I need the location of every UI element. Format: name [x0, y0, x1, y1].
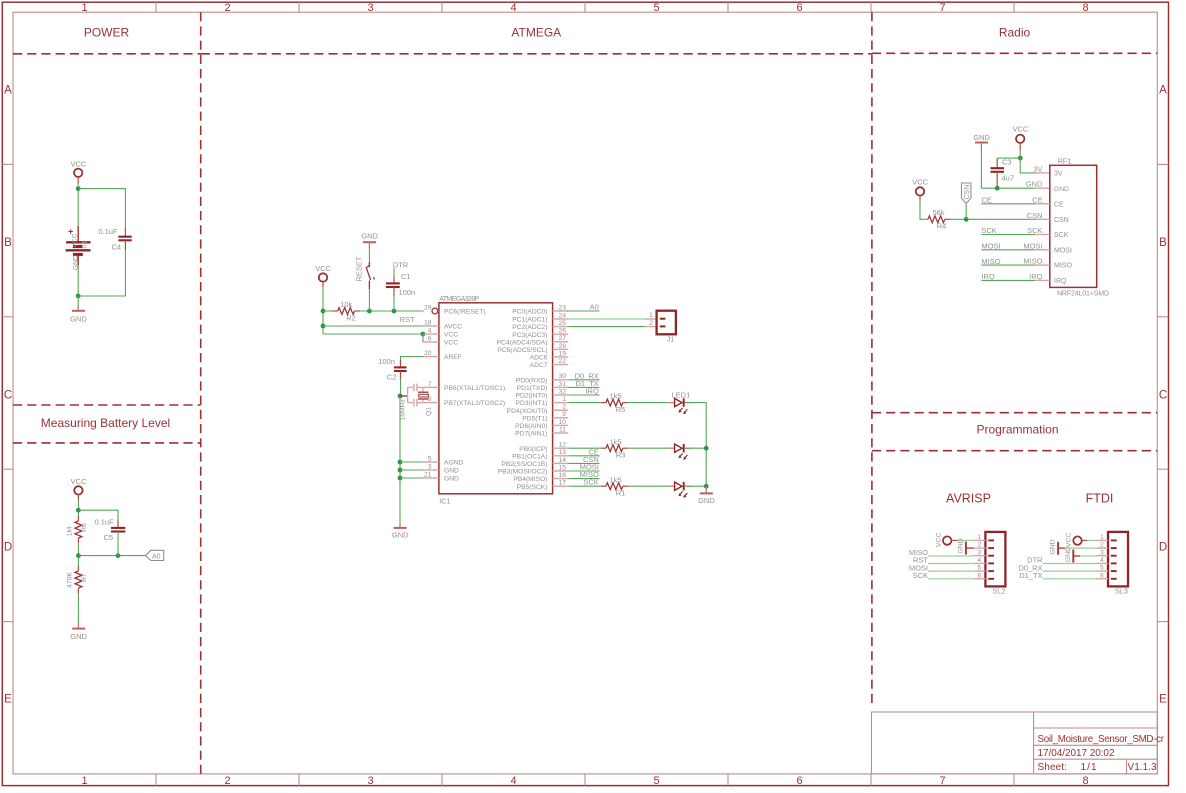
svg-text:30: 30: [558, 373, 566, 380]
IC1 pin 31 PD1(TXD): [517, 381, 569, 392]
svg-text:AVCC: AVCC: [444, 324, 462, 331]
svg-text:100n: 100n: [399, 288, 416, 297]
wire to GND: [77, 296, 79, 306]
wire VCC down: [1019, 150, 1021, 158]
wire R3 to LED: [628, 447, 675, 449]
svg-text:PC6(/RESET): PC6(/RESET): [444, 309, 486, 316]
node junction GND pin21: [398, 476, 403, 481]
IC1 pin 15 PB3(MOSI/OC2): [498, 464, 569, 475]
svg-text:B1: B1: [82, 240, 89, 248]
svg-text:PD5(T1): PD5(T1): [522, 415, 547, 422]
svg-text:D: D: [1159, 542, 1167, 554]
svg-text:SCK: SCK: [1027, 226, 1042, 235]
svg-text:R5: R5: [616, 405, 626, 414]
svg-text:19: 19: [558, 350, 566, 357]
svg-text:ATMEGA328P: ATMEGA328P: [439, 296, 479, 303]
svg-text:Soil_Moisture_Sensor_SMD-cr: Soil_Moisture_Sensor_SMD-cr: [1038, 734, 1165, 745]
svg-text:C: C: [1159, 389, 1167, 401]
node junction AVCC row: [321, 324, 326, 329]
svg-text:PB0(ICP): PB0(ICP): [519, 446, 547, 453]
SL3 pin stubs: [1097, 540, 1109, 578]
node junction LED3 rail: [704, 484, 709, 489]
svg-text:CSN: CSN: [1027, 211, 1043, 220]
wire net D1_TX: [568, 386, 599, 388]
svg-text:PC2(ADC2): PC2(ADC2): [512, 324, 547, 331]
svg-text:21: 21: [424, 471, 432, 478]
svg-text:D: D: [4, 542, 12, 554]
svg-text:MISO: MISO: [1054, 263, 1072, 270]
wire SL3 pin1: [1087, 539, 1097, 541]
svg-text:29: 29: [424, 304, 432, 311]
svg-text:NRF24L01+SMD: NRF24L01+SMD: [1057, 290, 1109, 297]
node junction VCC pin6: [421, 332, 426, 337]
svg-text:27: 27: [558, 335, 566, 342]
svg-text:CE: CE: [981, 196, 991, 205]
svg-text:0.1uF: 0.1uF: [95, 518, 115, 527]
wire R1 to LED: [628, 485, 675, 487]
net tag A0: [146, 550, 164, 560]
svg-text:8: 8: [1082, 2, 1088, 14]
ground GND (battery level): [70, 624, 87, 642]
svg-text:GND: GND: [70, 632, 87, 641]
capacitor C3 4u7: [991, 157, 1015, 188]
wire net IRQ (radio): [981, 279, 1035, 281]
wire bottom to C4: [78, 250, 125, 296]
svg-text:GND: GND: [1050, 539, 1057, 554]
svg-text:R4: R4: [937, 222, 947, 231]
svg-text:PC0(ADC0): PC0(ADC0): [512, 309, 547, 316]
svg-text:C4: C4: [112, 243, 122, 252]
IC1 pin 9 PD5(T1): [522, 411, 568, 422]
svg-text:20: 20: [424, 350, 432, 357]
svg-text:GND: GND: [1054, 186, 1069, 193]
svg-text:PB7(XTAL2/TOSC2): PB7(XTAL2/TOSC2): [444, 400, 505, 407]
wire IC to R1: [568, 485, 601, 487]
svg-text:PB1(OC1A): PB1(OC1A): [512, 453, 547, 460]
wire R2 to IC pin29: [360, 310, 424, 312]
svg-text:5: 5: [653, 2, 659, 14]
svg-text:3: 3: [428, 463, 432, 470]
svg-text:4: 4: [510, 775, 516, 787]
ground GND (reset switch): [361, 232, 378, 249]
svg-text:B: B: [1159, 237, 1167, 249]
svg-text:10k: 10k: [340, 300, 352, 309]
svg-text:SCK: SCK: [981, 226, 996, 235]
svg-text:VCC: VCC: [444, 340, 458, 347]
svg-text:32: 32: [558, 388, 566, 395]
svg-text:SL2: SL2: [992, 587, 1005, 596]
svg-text:0.1uF: 0.1uF: [98, 227, 118, 236]
svg-text:AGND: AGND: [444, 460, 463, 467]
svg-text:14: 14: [558, 457, 566, 464]
node junction LED2 rail: [704, 446, 709, 451]
svg-text:MOSI: MOSI: [1023, 241, 1042, 250]
node junction R6 top: [76, 508, 81, 513]
node junction switch bottom: [367, 309, 372, 314]
svg-text:18: 18: [424, 319, 432, 326]
svg-text:PB5(SCK): PB5(SCK): [517, 484, 548, 491]
wire RST row: [323, 310, 332, 312]
wire AGND row: [400, 461, 424, 463]
wire CSN tag to row: [965, 203, 967, 219]
svg-text:VCC: VCC: [1012, 125, 1028, 134]
IC1 pin 8 PB7(XTAL2/TOSC2): [424, 396, 505, 407]
IC1 pin 5 AGND: [424, 455, 464, 466]
svg-text:16MHz: 16MHz: [399, 398, 406, 420]
wire R4 to CSN row: [950, 218, 1036, 220]
svg-text:E: E: [1159, 694, 1167, 706]
wire GND to switch: [368, 248, 370, 262]
IC1 pin 13 PB1(OC1A): [512, 449, 568, 460]
wire MISO to SL2: [928, 555, 974, 557]
node junction AGND: [398, 460, 403, 465]
svg-text:470K: 470K: [67, 572, 74, 588]
svg-text:R1: R1: [616, 489, 626, 498]
resistor R1 1k5: [601, 475, 628, 497]
svg-text:PD6(AIN0): PD6(AIN0): [515, 423, 547, 430]
connector SL3: [1108, 532, 1128, 596]
svg-text:CSN: CSN: [1054, 217, 1069, 224]
svg-text:25: 25: [558, 320, 566, 327]
svg-text:13: 13: [558, 449, 566, 456]
svg-text:4: 4: [510, 2, 516, 14]
IC1 pin 14 PB2(SS/OC1B): [501, 457, 568, 468]
wire LED rail vertical: [705, 403, 707, 487]
svg-text:C: C: [4, 389, 12, 401]
svg-text:22: 22: [558, 358, 566, 365]
wire node to A0 tag: [78, 555, 145, 557]
svg-text:V1.1.3: V1.1.3: [1128, 762, 1157, 773]
svg-text:PC4(ADC4/SDA): PC4(ADC4/SDA): [497, 339, 548, 346]
svg-text:1: 1: [649, 312, 653, 319]
frame row letters left: [4, 85, 12, 706]
svg-text:3V: 3V: [1054, 171, 1063, 178]
IC1 pin 21 GND: [424, 471, 459, 482]
svg-text:GND: GND: [361, 232, 378, 241]
svg-text:J1: J1: [667, 335, 675, 344]
svg-text:GND: GND: [698, 496, 715, 505]
wire net CSN: [568, 462, 599, 464]
svg-text:16: 16: [558, 472, 566, 479]
resistor R3 1k5: [601, 437, 628, 459]
svg-text:R2: R2: [346, 313, 356, 322]
svg-text:VCC: VCC: [315, 264, 331, 273]
IC1 pin 27 PC4(ADC4/SDA): [497, 335, 569, 346]
IC1 pin 17 PB5(SCK): [517, 480, 569, 491]
svg-text:7: 7: [939, 775, 945, 787]
svg-text:5: 5: [653, 775, 659, 787]
svg-text:4: 4: [428, 327, 432, 334]
ground GND (leds): [698, 486, 715, 505]
supply VCC (R4): [912, 178, 928, 202]
diode LED: [668, 482, 692, 498]
svg-text:E: E: [4, 694, 12, 706]
svg-text:IRQ: IRQ: [1029, 272, 1043, 281]
svg-text:15: 15: [558, 464, 566, 471]
wire VCC rail: [322, 287, 324, 334]
wire D0_RX to SL3: [1043, 570, 1097, 572]
supply VCC (atmega): [315, 264, 331, 287]
svg-text:PC3(ADC3): PC3(ADC3): [512, 332, 547, 339]
node junction divider: [76, 553, 81, 558]
connector SL2: [985, 532, 1005, 596]
IC1 pin 6 VCC: [424, 335, 459, 346]
diode LED1: [668, 390, 692, 414]
svg-text:3: 3: [367, 2, 373, 14]
svg-text:2: 2: [224, 2, 230, 14]
svg-text:C1: C1: [401, 272, 411, 281]
svg-text:24: 24: [558, 312, 566, 319]
wire net IRQ: [568, 394, 599, 396]
wire PC2 to J1 pin2: [568, 326, 645, 328]
svg-text:1k5: 1k5: [609, 392, 621, 401]
section POWER dashed box: [13, 12, 201, 774]
svg-text:A0: A0: [590, 303, 599, 312]
radio module RF1 NRF24L01+SMD: [1050, 157, 1109, 298]
svg-text:17/04/2017 20:02: 17/04/2017 20:02: [1038, 748, 1115, 759]
svg-text:B: B: [4, 237, 12, 249]
SL3 pin numbers: [1100, 534, 1104, 579]
wire VCC to 3V pin: [1020, 158, 1035, 173]
IC1 pin 4 VCC: [424, 327, 459, 338]
svg-text:GND: GND: [70, 315, 87, 324]
svg-text:RESET: RESET: [355, 256, 364, 281]
wire GND down: [981, 150, 1035, 189]
svg-text:7: 7: [939, 2, 945, 14]
node junction GND pin3: [398, 468, 403, 473]
svg-text:23: 23: [558, 304, 566, 311]
title block outline: [872, 712, 1158, 774]
wire net D0_RX: [568, 379, 599, 381]
supply VCC (SL2 pin1): [935, 533, 957, 547]
svg-text:PD1(TXD): PD1(TXD): [517, 385, 548, 392]
IC1 pin 7 PB6(XTAL1/TOSC1): [424, 381, 505, 392]
IC1 pin 23 PC0(ADC0): [512, 304, 568, 315]
svg-text:PC1(ADC1): PC1(ADC1): [512, 317, 547, 324]
svg-text:1/1: 1/1: [1081, 762, 1097, 773]
svg-text:56k: 56k: [932, 208, 944, 217]
IC1 pin 3 GND: [424, 463, 459, 474]
wire VCC row pin4: [323, 333, 424, 335]
IC1 pin 12 PB0(ICP): [519, 442, 568, 453]
svg-text:100n: 100n: [378, 357, 395, 366]
svg-text:2: 2: [649, 320, 653, 327]
wire VCC down: [77, 500, 79, 516]
wire switch to RST: [368, 289, 370, 311]
svg-text:8: 8: [428, 396, 432, 403]
SL2 pin numbers: [977, 534, 981, 579]
wire net SCK (radio): [981, 234, 1035, 236]
wire VCC pin6: [422, 334, 425, 342]
IC1 pin 10 PD6(AIN0): [515, 419, 568, 430]
svg-text:2: 2: [224, 775, 230, 787]
capacitor C5: [95, 518, 126, 556]
wire VCC to battery: [77, 184, 79, 227]
svg-text:4u7: 4u7: [1002, 173, 1015, 182]
IC1 pin 20 AREF: [424, 350, 462, 361]
svg-text:AREF: AREF: [444, 354, 462, 361]
svg-text:PD0(RXD): PD0(RXD): [516, 377, 548, 384]
IC1 pin 1 PD3(INT1): [516, 396, 569, 407]
svg-text:IC1: IC1: [439, 497, 450, 506]
ground GND (SL2 pin2): [957, 538, 974, 554]
svg-text:PD7(AIN1): PD7(AIN1): [515, 431, 547, 438]
capacitor C2 100n: [378, 357, 406, 381]
wire net A0: [567, 310, 600, 312]
svg-text:Programmation: Programmation: [976, 423, 1058, 437]
svg-text:CE: CE: [1054, 201, 1064, 208]
IC1 pin 11 PD7(AIN1): [515, 426, 568, 437]
wire net CE: [568, 455, 599, 457]
frame column numbers top: [81, 2, 1088, 14]
wire SL2 pin1: [957, 539, 974, 541]
IC1 pin 24 PC1(ADC1): [512, 312, 568, 323]
svg-text:A: A: [4, 85, 12, 97]
wire junction to C3: [997, 157, 1020, 159]
svg-text:POWER: POWER: [84, 26, 130, 40]
svg-text:R6: R6: [81, 523, 88, 532]
section Radio dashed line: [872, 52, 1157, 54]
node junction VCC/C4 top: [76, 186, 81, 191]
frame column ticks: [156, 2, 1014, 785]
resistor R7 470K: [67, 566, 88, 593]
capacitor C1 100n: [386, 272, 415, 297]
wire LED to rail: [686, 402, 707, 404]
svg-text:PB3(MOSI/OC2): PB3(MOSI/OC2): [498, 469, 548, 476]
svg-text:ADC7: ADC7: [530, 362, 548, 369]
svg-text:1k5: 1k5: [609, 437, 621, 446]
svg-text:R3: R3: [616, 451, 626, 460]
svg-text:C2: C2: [387, 372, 397, 381]
svg-text:10: 10: [558, 419, 566, 426]
svg-text:PB6(XTAL1/TOSC1): PB6(XTAL1/TOSC1): [444, 385, 505, 392]
svg-text:MISO: MISO: [1023, 257, 1042, 266]
supply VCC (SL3 pin1): [1066, 533, 1087, 547]
wire C2 to GND rail: [400, 380, 402, 397]
svg-text:PD4(XCK/T0): PD4(XCK/T0): [507, 408, 548, 415]
wire IC to R3: [568, 447, 601, 449]
svg-text:PC5(ADC5/SCL): PC5(ADC5/SCL): [497, 347, 547, 354]
IC1 pin 25 PC2(ADC2): [512, 320, 568, 331]
IC1 pin 16 PB4(MISO): [513, 472, 568, 483]
svg-text:R7: R7: [81, 573, 88, 582]
svg-text:GND: GND: [957, 538, 964, 553]
svg-text:Q1: Q1: [425, 407, 432, 416]
svg-text:6: 6: [796, 775, 802, 787]
IC1 pin 19 ADC6: [530, 350, 569, 361]
IC1 pin 18 AVCC: [424, 319, 463, 330]
section ATMEGA dashed lines: [201, 12, 872, 705]
svg-text:CSN: CSN: [964, 185, 971, 200]
wire SCK to SL2: [928, 578, 974, 580]
svg-text:GND: GND: [444, 468, 459, 475]
svg-text:31: 31: [558, 381, 566, 388]
svg-text:SCK: SCK: [1054, 232, 1069, 239]
svg-text:7: 7: [428, 381, 432, 388]
svg-text:GND: GND: [392, 531, 409, 540]
svg-text:ATMEGA: ATMEGA: [511, 26, 561, 40]
svg-text:RST: RST: [400, 315, 415, 324]
svg-text:GND: GND: [1065, 547, 1072, 562]
SL2 pin stubs: [974, 540, 986, 578]
wire net MOSI (radio): [981, 249, 1035, 251]
switch S1 RESET: [355, 256, 375, 289]
svg-text:SL3: SL3: [1115, 587, 1128, 596]
resistor R6 1M: [67, 516, 88, 543]
svg-text:8: 8: [1082, 775, 1088, 787]
svg-text:PD3(INT1): PD3(INT1): [516, 400, 548, 407]
svg-text:ADC6: ADC6: [530, 355, 548, 362]
resistor R2 10k: [332, 300, 360, 322]
svg-text:CE: CE: [1032, 195, 1042, 204]
wire battery to bottom node: [77, 266, 79, 297]
wire top to C5: [78, 510, 118, 519]
net tag CSN: [962, 183, 971, 203]
svg-text:12: 12: [558, 442, 566, 449]
wire net MOSI: [568, 470, 599, 472]
svg-text:C3: C3: [1002, 157, 1012, 166]
supply VCC (radio top): [1012, 125, 1028, 151]
svg-text:VCC: VCC: [71, 477, 87, 486]
section Programmation dashed lines: [872, 413, 1157, 451]
IC1 pin 30 PD0(RXD): [516, 373, 568, 384]
wire LED to rail: [686, 447, 707, 449]
svg-text:6: 6: [428, 335, 432, 342]
wire VCC to R4: [920, 201, 927, 219]
svg-text:1: 1: [562, 396, 566, 403]
wire AVCC row: [323, 325, 424, 327]
svg-text:GND: GND: [1026, 180, 1043, 189]
ground GND (SL3 pin2): [1050, 539, 1097, 554]
svg-text:A0: A0: [152, 554, 161, 561]
svg-text:SCK: SCK: [913, 571, 928, 580]
node junction CSN tag: [964, 217, 969, 222]
svg-text:PB2(SS/OC1B): PB2(SS/OC1B): [501, 461, 547, 468]
svg-text:5: 5: [428, 455, 432, 462]
resistor R5 1k5: [601, 392, 628, 414]
svg-text:28: 28: [558, 343, 566, 350]
wire net MISO (radio): [981, 264, 1035, 266]
wire GND rail vertical: [399, 396, 401, 523]
node junction C1 bottom: [392, 309, 397, 314]
ground GND (power section): [70, 306, 87, 324]
wire net CE (radio): [981, 203, 1035, 205]
svg-text:VCC: VCC: [912, 178, 928, 187]
node junction GND/C4 bottom: [76, 294, 81, 299]
wire AREF row: [401, 357, 424, 366]
svg-text:9: 9: [562, 411, 566, 418]
ground GND (atmega): [392, 523, 409, 540]
wire RST to SL2: [928, 563, 974, 565]
svg-text:LED1: LED1: [672, 390, 691, 399]
node junction RST row: [321, 309, 326, 314]
ground GND (SL3 pin3): [1065, 547, 1097, 563]
svg-text:A: A: [1159, 85, 1167, 97]
supply VCC (battery level): [71, 477, 87, 500]
svg-text:IRQ: IRQ: [1054, 278, 1067, 285]
svg-text:FTDI: FTDI: [1086, 492, 1114, 506]
node junction C5 bottom: [116, 553, 121, 558]
svg-text:GND: GND: [973, 133, 990, 142]
svg-text:DTR: DTR: [393, 260, 409, 269]
wire top to C4: [78, 189, 125, 228]
resistor R4 56k: [927, 208, 949, 231]
svg-text:26: 26: [558, 328, 566, 335]
wire LED to rail: [686, 485, 707, 487]
svg-text:Radio: Radio: [999, 26, 1031, 40]
svg-text:AVRISP: AVRISP: [946, 492, 991, 506]
wire PC1 to J1 pin1: [568, 318, 645, 320]
